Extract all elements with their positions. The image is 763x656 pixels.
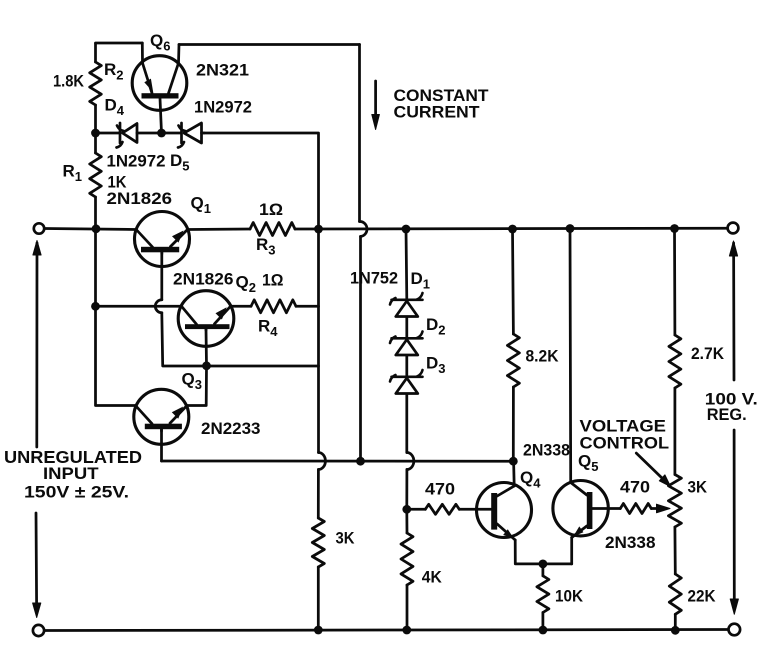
wire: vertical from output-rail node down past R4 to base rail corner [163, 229, 319, 366]
node: base wire / Q4 collector / 8.2K junction [509, 457, 518, 466]
resistor 470 (Q4 base) body [425, 504, 459, 514]
annotation arrow: unregulated input span (left) [33, 241, 42, 618]
wire: Q5 base to 470 [592, 507, 620, 510]
wire: Q2 base down to node [205, 329, 208, 366]
transistor Q4 2N338 (NPN error amp) [477, 483, 532, 541]
wire: Q1 base down (lower) to base rail [160, 313, 164, 366]
wire: vertical continues below corner toward 3K [317, 366, 320, 453]
wire hop: constant-current branch over input rail [360, 221, 368, 236]
wire: Q5 emitter lead down to common emitter wire [570, 538, 573, 564]
wire: hop down to 470/4K node [405, 470, 408, 510]
wire: 3K to bottom rail [317, 567, 320, 630]
zener diode D3 1N752 [390, 370, 423, 394]
svg-text:470: 470 [425, 480, 455, 499]
diode D4 1N2972 [117, 123, 138, 148]
resistor 8.2K body [507, 334, 519, 387]
wire: Q1 base down (upper) [160, 253, 163, 300]
zener diode D2 1N752 [390, 332, 423, 356]
wire: Q3 base down to long base wire [160, 429, 163, 461]
potentiometer 3K body [668, 475, 681, 528]
annotation arrow: voltage-control pointer to potentiometer wiper [636, 453, 670, 486]
node: R1/R2/D4 junction [91, 129, 100, 138]
resistor R1 1K body [90, 153, 102, 197]
wire: 470 node to resistor [407, 508, 426, 511]
svg-text:Q3: Q3 [182, 370, 202, 393]
svg-text:2N321: 2N321 [196, 61, 249, 80]
wire hop: zener chain over long base wire [407, 452, 414, 469]
resistor 22K body [669, 574, 681, 614]
terminal: unregulated input + (top left) [34, 223, 44, 233]
node: output rail / D5 branch junction [314, 225, 323, 234]
wire: left column lead top-bus to R2 [94, 44, 97, 63]
svg-text:10K: 10K [555, 587, 583, 606]
svg-text:1Ω: 1Ω [262, 271, 284, 290]
node: Q1 base rail / Q2 base / Q3 emitter junction [202, 361, 211, 370]
resistor R3 1 ohm body [250, 223, 295, 236]
wire: 8.2K down to Q4 collector node [512, 387, 515, 461]
wire: input rail, Q1 emitter to R3 [188, 228, 251, 231]
resistor R4 1 ohm body [251, 300, 296, 313]
node: bottom rail / 4K junction [402, 626, 411, 635]
resistor 470 (Q5 base) body [620, 504, 651, 514]
svg-text:8.2K: 8.2K [526, 348, 559, 366]
wire hop: Q1 base jogs around Q2 collector wire [155, 300, 162, 313]
node: bottom rail / 3K junction [314, 626, 323, 635]
wire: 4K to bottom rail [406, 585, 409, 630]
svg-text:3K: 3K [688, 478, 708, 497]
svg-text:3K: 3K [336, 529, 355, 548]
svg-text:D5: D5 [170, 151, 190, 174]
wire: R4 to vertical branch [296, 305, 319, 308]
wire: 10K from emitter node to bottom rail (leads) [542, 564, 545, 576]
svg-text:2N1826: 2N1826 [173, 270, 234, 289]
node: left column / Q2 collector junction [91, 302, 100, 311]
svg-text:R3: R3 [256, 235, 276, 258]
node: Q4-Q5 emitters / 10K junction [539, 560, 548, 569]
wire: 470 to potentiometer wiper arrow [651, 507, 659, 510]
svg-text:22K: 22K [688, 587, 716, 606]
wire: 2.7K down to potentiometer [674, 388, 677, 475]
wire: zener chain from output rail to D1 [405, 229, 409, 300]
wire: top bus right segment (Q6 collector lead to constant-current branch) [179, 43, 360, 46]
svg-text:2N338: 2N338 [523, 441, 570, 460]
svg-text:Q5: Q5 [578, 452, 598, 475]
svg-text:Q6: Q6 [150, 31, 170, 54]
svg-text:D2: D2 [426, 315, 446, 338]
resistor 2.7K body [669, 335, 681, 388]
svg-text:CURRENT: CURRENT [394, 103, 481, 122]
wire: D4 node to R1 [94, 133, 97, 153]
transistor Q6 2N321 (PNP) [132, 43, 187, 133]
svg-text:Q4: Q4 [520, 468, 541, 491]
annotation arrow: 100V regulated span (right) [729, 241, 738, 614]
svg-text:2N338: 2N338 [605, 533, 656, 552]
node: output rail / 2.7K junction [670, 224, 679, 233]
wire: D4 to Q6 base node [137, 132, 181, 135]
svg-text:CONTROL: CONTROL [580, 434, 670, 453]
svg-text:150V ± 25V.: 150V ± 25V. [24, 483, 129, 502]
wire: 2.7K branch from output rail [673, 229, 676, 336]
wire hop: 3K branch over Q3 base wire [318, 453, 325, 470]
wire: bottom common rail [44, 630, 728, 631]
node: base wire / constant-current branch junction [356, 457, 365, 466]
node: Q6 base / D4 / D5 junction [157, 129, 166, 138]
wire: left column, input rail down to Q2 collector node [94, 229, 97, 306]
wire: Q3 emitter over and up to node [187, 366, 207, 406]
svg-text:D3: D3 [426, 354, 446, 377]
wire: 10K to bottom rail [542, 613, 545, 631]
transistor Q1 2N1826 (NPN series pass) [135, 212, 190, 267]
diode D5 1N2972 [178, 123, 204, 148]
svg-text:D1: D1 [411, 269, 431, 292]
terminal: unregulated input - (bottom left) [33, 625, 44, 636]
svg-text:R2: R2 [104, 60, 124, 83]
node: bottom rail / 22K junction [671, 626, 680, 635]
svg-text:1N2972: 1N2972 [107, 152, 166, 171]
wire: R2 to D4 node [94, 105, 97, 133]
svg-text:D4: D4 [105, 96, 125, 119]
svg-text:470: 470 [620, 478, 650, 497]
wire: Q2 collector wire from left column [96, 305, 182, 308]
wire: long base wire from Q3 to Q4 collector branch [162, 460, 514, 463]
wiper arrow: 470 into potentiometer 3K [657, 504, 671, 513]
wire: D4 node to diode D4 [96, 132, 121, 135]
node: output rail / zener chain junction [402, 225, 411, 234]
transistor Q5 2N338 (NPN error amp, mirrored) [553, 481, 608, 538]
wire: R1 to input rail [94, 197, 97, 229]
terminal: regulated output - (bottom right) [729, 624, 741, 636]
svg-text:R1: R1 [63, 162, 83, 185]
zener diode D1 1N752 [390, 293, 423, 317]
wire: Q2 emitter to R4 [231, 305, 252, 308]
wire: node to 4K [405, 509, 408, 533]
wire: Q4 collector lead [512, 461, 515, 486]
svg-text:1Ω: 1Ω [259, 200, 283, 219]
wire: 8.2K branch from output rail [511, 229, 515, 334]
wire: Q5 collector branch from output rail [569, 229, 572, 483]
wire: D1 to D2 [405, 318, 408, 339]
node: input rail / R1 junction [92, 224, 101, 233]
resistor 10K body [537, 576, 549, 613]
wire: potentiometer to 22K [674, 527, 677, 574]
wire: input rail, left terminal to Q1 [44, 229, 136, 230]
wire: D3 down to hop [405, 395, 408, 453]
node: zener chain / 470 / 4K junction [402, 505, 411, 514]
svg-text:Q1: Q1 [191, 194, 211, 217]
wire: left column, Q2 collector node down and over to Q3 collector [96, 306, 136, 405]
wire: 22K to bottom rail [674, 614, 677, 630]
svg-text:1.8K: 1.8K [53, 73, 84, 91]
wire: Q4 emitter down to common emitter wire [515, 540, 572, 564]
node: bottom rail / 10K junction [539, 626, 548, 635]
wire: 470 to Q4 base [459, 508, 491, 511]
node: output rail / Q5 collector junction [566, 224, 575, 233]
svg-text:Q2: Q2 [236, 273, 256, 296]
svg-text:REG.: REG. [707, 405, 747, 424]
svg-text:2N1826: 2N1826 [107, 189, 173, 208]
wire: constant-current branch vertical (upper) [358, 45, 361, 222]
svg-text:R4: R4 [258, 317, 278, 340]
wire: constant-current branch vertical (lower) down to node on base wire [359, 237, 362, 462]
wire: hop to 3K resistor [317, 470, 320, 519]
node: output rail / 8.2K junction [508, 225, 517, 234]
svg-text:2N2233: 2N2233 [201, 419, 261, 438]
wire: D5 to right corner, down to output rail [204, 133, 319, 229]
wire: D2 to D3 [405, 356, 408, 377]
resistor R2 1.8K body [90, 62, 102, 105]
transistor Q3 2N2233 (NPN driver) [134, 389, 189, 444]
svg-text:2.7K: 2.7K [691, 345, 724, 363]
wire: output rail from R3 to right terminal [295, 227, 728, 231]
svg-text:4K: 4K [422, 568, 442, 587]
wire: top bus left segment (R2 corner to Q6 emitter lead) [96, 42, 143, 45]
svg-text:INPUT: INPUT [43, 464, 99, 483]
svg-text:1N752: 1N752 [350, 269, 398, 288]
terminal: regulated output + (top right) [728, 223, 739, 234]
annotation arrow: constant current direction [372, 81, 380, 130]
resistor 3K (bleeder) body [312, 518, 324, 567]
transistor Q2 2N1826 (NPN series pass) [178, 291, 234, 347]
svg-text:1N2972: 1N2972 [194, 98, 252, 117]
resistor 4K body [401, 533, 413, 585]
